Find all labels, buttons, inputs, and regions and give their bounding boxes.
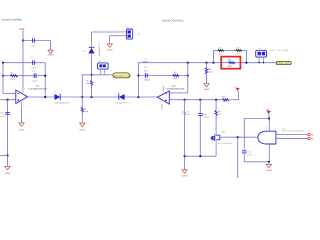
wire pin2 link y35.7 xyxy=(110,35,127,37)
svg-text:BOOST CONTROL: BOOST CONTROL xyxy=(3,19,24,22)
wire ground rail y156.2 xyxy=(185,155,217,157)
svg-text:R32: R32 xyxy=(228,59,231,62)
wire stub to ground xyxy=(7,156,9,167)
wire V3A supply vertical x23 xyxy=(22,41,24,88)
ground AGND (top bypass) xyxy=(48,50,54,57)
resistor R6 1.0k xyxy=(86,80,93,86)
svg-text:R31: R31 xyxy=(222,96,225,99)
svg-text:0.15 µF: 0.15 µF xyxy=(203,116,209,119)
svg-text:1.00k: 1.00k xyxy=(84,110,88,113)
wire corner down to ground xyxy=(109,36,111,44)
svg-text:R30: R30 xyxy=(173,71,176,74)
svg-text:4700pF: 4700pF xyxy=(31,67,38,70)
svg-text:BUCK CONTROL: BUCK CONTROL xyxy=(162,20,184,23)
pin stub op-amp V+ xyxy=(22,87,24,92)
wire gate row y137.2 xyxy=(220,136,258,138)
wire bypass link y118.5 xyxy=(244,118,269,120)
node gate/output junction xyxy=(237,136,239,138)
op-amp U2B xyxy=(157,85,185,105)
wire DNP branch x184.6 xyxy=(184,100,186,157)
ground AGND (R28) xyxy=(204,84,210,91)
svg-text:C30: C30 xyxy=(144,69,147,72)
resistor R33 51.1 xyxy=(215,110,221,115)
wire DNP parallel path xyxy=(212,50,247,63)
wire left edge vertical x3 xyxy=(2,63,4,94)
svg-text:21.5k: 21.5k xyxy=(222,100,226,103)
node ground rail mid xyxy=(199,155,201,157)
node V3A junction xyxy=(22,39,24,41)
wire C34 branch x200.3 xyxy=(199,100,201,157)
power flag V3A (R31 pullup) xyxy=(235,87,240,92)
wire to AGND (gate) xyxy=(268,162,270,164)
wire feedback row y75.5 xyxy=(138,75,187,77)
wire output down to edge x237.7 xyxy=(237,137,239,178)
wire boost rail upper y62.7 xyxy=(3,62,45,64)
wire R33 branch x216.1 xyxy=(215,100,217,135)
svg-text:41.2k: 41.2k xyxy=(10,77,14,80)
wire buck rail y62.7 xyxy=(138,62,276,64)
svg-text:0.1µF: 0.1µF xyxy=(0,115,6,118)
net label BOOST_I_SET xyxy=(113,73,131,78)
diode D4 1N4448 xyxy=(83,42,101,57)
capacitor C8 xyxy=(30,56,37,70)
node ground rail left xyxy=(184,155,186,157)
svg-text:1000pF: 1000pF xyxy=(144,78,151,81)
resistor R28 15.4k to ground xyxy=(205,62,212,84)
capacitor C6 0.1uF xyxy=(31,36,37,48)
svg-text:J8: J8 xyxy=(99,60,101,63)
ground AGND (buck bottom) xyxy=(182,170,188,178)
wire inverting input y92.9 xyxy=(169,92,187,94)
resistor R7 41.2k xyxy=(10,71,17,80)
ground AGND (op-amp U2A) xyxy=(19,123,25,131)
node left rail upper xyxy=(2,62,4,64)
svg-text:BOOST_I_LIM: BOOST_I_LIM xyxy=(114,75,131,78)
node R8 tap xyxy=(81,96,83,98)
header J8 xyxy=(98,60,109,75)
diode D3 1N4448 xyxy=(115,91,131,104)
wire gate V+ pin x269.3 xyxy=(268,119,270,132)
wire output row y99.7 xyxy=(169,99,222,101)
capacitor C15 0.1uF xyxy=(0,112,10,119)
node feedback junction xyxy=(44,75,46,77)
wire V3A stub xyxy=(268,115,270,119)
and-gate U12 (mirrored) xyxy=(258,128,305,145)
wire buck corner vertical x138.4 xyxy=(137,63,139,97)
svg-text:LMC6484AIM/NOPB: LMC6484AIM/NOPB xyxy=(29,87,48,90)
capacitor C30 1000pF xyxy=(144,66,151,81)
svg-text:R7: R7 xyxy=(11,71,13,74)
wire J8 row y74.8 xyxy=(82,74,113,76)
svg-text:0.56µF: 0.56µF xyxy=(32,79,39,82)
svg-text:0.1µF: 0.1µF xyxy=(248,154,252,157)
node gate ground xyxy=(268,161,270,163)
wire gate gnd pin xyxy=(268,144,270,162)
svg-text:C8: C8 xyxy=(30,56,32,59)
node DNP tap xyxy=(184,99,186,101)
wire bypass bottom y161.8 xyxy=(244,161,269,163)
node feedback row right xyxy=(187,74,189,76)
resistor R34 DNP xyxy=(218,46,224,55)
svg-text:1.0k: 1.0k xyxy=(86,82,89,85)
wire feedback vertical x187.8 xyxy=(187,63,189,93)
svg-text:C15: C15 xyxy=(0,112,3,115)
capacitor C13 0.56uF xyxy=(32,69,39,82)
wire boost branch x91.5 xyxy=(91,32,93,97)
wire after R31 xyxy=(230,99,239,101)
svg-text:VOUT_SET: VOUT_SET xyxy=(277,62,290,65)
svg-text:J9: J9 xyxy=(126,26,128,29)
diode D2 LM4040 xyxy=(54,91,71,105)
wire branch down x7.5 xyxy=(7,100,9,156)
resistor R8 1.00k xyxy=(81,107,88,113)
node bottom left junction xyxy=(6,154,8,156)
svg-text:AGND: AGND xyxy=(5,172,11,175)
resistor R31 21.5k xyxy=(222,96,229,104)
svg-text:AGND: AGND xyxy=(19,128,25,131)
node left rail lower xyxy=(2,75,4,77)
svg-text:D4: D4 xyxy=(83,50,85,53)
wire noninverting input y99.7 xyxy=(0,99,16,101)
svg-text:VREF: VREF xyxy=(143,60,149,63)
svg-text:SN74LVC1G08DBVR: SN74LVC1G08DBVR xyxy=(282,130,305,133)
wire to ground xyxy=(21,106,23,122)
node R33 tap xyxy=(215,99,217,101)
svg-text:AGND: AGND xyxy=(266,169,272,172)
svg-text:HDT JA SHOE: HDT JA SHOE xyxy=(270,49,289,52)
svg-text:D3: D3 xyxy=(118,91,120,94)
pin stub U2B V- xyxy=(161,104,163,109)
pin numbers U2A xyxy=(13,87,30,107)
power flag V3A (boost) xyxy=(19,28,24,33)
wire stub to left edge xyxy=(0,155,8,157)
port flag PB3 xyxy=(308,133,314,136)
svg-text:C6: C6 xyxy=(32,36,34,39)
svg-text:1N4448W-7-F: 1N4448W-7-F xyxy=(98,42,101,57)
pin stub op-amp V- xyxy=(21,102,23,107)
wire bypass vertical x244.3 xyxy=(243,119,245,162)
svg-text:1N4448W-7-F: 1N4448W-7-F xyxy=(115,102,131,105)
ground AGND (gate) xyxy=(266,164,272,172)
ground AGND (R8) xyxy=(79,123,85,131)
node rail feedback tap xyxy=(187,62,189,64)
header J10 xyxy=(256,47,289,64)
node buck branch tap xyxy=(137,96,139,98)
node gate supply xyxy=(268,117,270,119)
svg-text:15.4k: 15.4k xyxy=(208,71,213,74)
wire boost rail lower y75.7 xyxy=(3,75,45,77)
svg-text:C41: C41 xyxy=(144,57,147,60)
wire to AGND bottom xyxy=(184,156,186,169)
node boost branch tap xyxy=(90,96,92,98)
ground AGND (J9 pin2) xyxy=(107,44,113,52)
resistor R32 28.7k (highlighted) xyxy=(228,59,235,68)
net label VOUT_SET xyxy=(276,61,291,65)
port flag PB4 xyxy=(308,137,314,140)
connector J9 xyxy=(123,26,141,39)
svg-text:D2: D2 xyxy=(54,91,56,94)
node J8 wire tap xyxy=(90,74,92,76)
wire inverting input y93.4 xyxy=(3,92,16,94)
svg-text:AGND: AGND xyxy=(48,54,54,57)
net name on rail xyxy=(143,57,149,63)
wire corner down x45.2 xyxy=(44,63,46,97)
svg-text:C34: C34 xyxy=(203,113,206,116)
node C30 row junction xyxy=(137,74,139,76)
ground AGND (bottom left) xyxy=(5,166,11,175)
wire branch R8 x82.3 xyxy=(81,75,83,123)
pin numbers U2B xyxy=(159,87,173,100)
op-amp U2A xyxy=(16,85,48,104)
wire gate input 1 xyxy=(276,134,308,136)
svg-text:J10: J10 xyxy=(258,47,261,50)
wire MOSFET source down xyxy=(215,145,217,156)
svg-text:AGND: AGND xyxy=(79,128,85,131)
svg-text:C40: C40 xyxy=(144,66,147,69)
highlight box (red) xyxy=(221,57,240,69)
power flag V3A (gate) xyxy=(266,108,271,115)
wire corner up x238.4 xyxy=(237,92,239,100)
pin numbers J8 xyxy=(99,71,106,73)
svg-text:PB4: PB4 xyxy=(311,138,314,141)
wire V3A stub down xyxy=(22,34,24,41)
svg-text:LM4040AIM3-3.0: LM4040AIM3-3.0 xyxy=(54,102,70,105)
pin stub U2B V+ xyxy=(162,86,164,92)
resistor R36 DNP xyxy=(181,111,190,116)
svg-text:PB3: PB3 xyxy=(311,134,314,137)
pin numbers U12 inputs xyxy=(253,133,279,139)
node feedback tap xyxy=(44,96,46,98)
transistor Q8 MOSFET xyxy=(211,131,232,145)
svg-text:AGND: AGND xyxy=(107,49,113,52)
wire top bypass rail xyxy=(23,40,51,42)
svg-text:21.5k: 21.5k xyxy=(173,77,177,80)
svg-text:LMC6484AIM/NOPB: LMC6484AIM/NOPB xyxy=(166,87,185,90)
wire top link y32 xyxy=(92,31,127,33)
svg-text:CSD17483F4: CSD17483F4 xyxy=(216,142,233,145)
wire gate input 2 xyxy=(276,138,308,140)
svg-text:51.1: 51.1 xyxy=(218,113,221,116)
wire main row y97 xyxy=(28,96,158,98)
svg-text:AGND: AGND xyxy=(204,88,210,91)
svg-text:C13: C13 xyxy=(32,69,35,72)
node +input branch xyxy=(6,99,8,101)
wire riser to ground xyxy=(50,41,52,51)
svg-text:AGND: AGND xyxy=(182,175,188,178)
svg-text:C38: C38 xyxy=(248,150,251,153)
resistor R35 DNP xyxy=(236,46,242,58)
capacitor C38 0.1uF xyxy=(242,150,252,156)
node C34 tap xyxy=(199,99,201,101)
capacitor C34 0.15uF xyxy=(198,113,209,119)
svg-text:28.7k: 28.7k xyxy=(228,65,233,68)
resistor R30 21.5k xyxy=(173,71,180,80)
svg-text:V3A: V3A xyxy=(19,28,24,31)
